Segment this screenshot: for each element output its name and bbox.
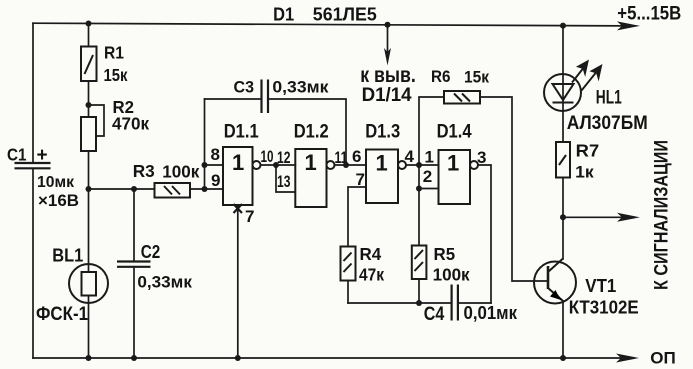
svg-text:0,33мк: 0,33мк bbox=[272, 78, 329, 97]
wire BL1 top lead bbox=[88, 189, 90, 272]
resistor R2 (trimmer) bbox=[81, 117, 96, 151]
svg-text:VT1: VT1 bbox=[585, 276, 616, 296]
node pin7 ground bbox=[235, 355, 241, 361]
svg-text:7: 7 bbox=[245, 207, 254, 226]
resistor R4 bbox=[341, 247, 356, 281]
wire R7 to collector bbox=[562, 178, 564, 260]
node BL1 ground bbox=[86, 355, 92, 361]
svg-text:470к: 470к bbox=[112, 114, 149, 134]
svg-text:D1.2: D1.2 bbox=[294, 122, 329, 143]
svg-text:12: 12 bbox=[277, 148, 291, 167]
svg-text:10: 10 bbox=[261, 147, 274, 166]
wire C2 top lead bbox=[133, 189, 135, 262]
svg-text:4: 4 bbox=[405, 147, 415, 166]
node D1.1 out bbox=[273, 162, 279, 168]
wire bottom rail bbox=[33, 357, 622, 359]
svg-text:9: 9 bbox=[211, 171, 220, 190]
wire D1.3 input 7 down to R4 bbox=[348, 187, 366, 247]
node D1.2 out bbox=[343, 162, 349, 168]
svg-text:100к: 100к bbox=[433, 265, 470, 285]
wire R1-R2 lead bbox=[88, 81, 90, 117]
wire emitter to bottom rail bbox=[562, 301, 564, 358]
wire R1 top lead bbox=[88, 24, 90, 47]
wire input column to C3 bbox=[204, 99, 206, 189]
node pin8 bbox=[202, 162, 208, 168]
node C2 tap bbox=[131, 186, 137, 192]
node R5/C4 bbox=[416, 300, 422, 306]
wire D1.4 output to C4 bbox=[478, 165, 491, 303]
svg-text:КТ3102Е: КТ3102Е bbox=[569, 298, 639, 318]
wire R5 bottom lead bbox=[418, 279, 420, 303]
wire left rail lower bbox=[32, 168, 34, 358]
svg-text:D1.1: D1.1 bbox=[224, 122, 259, 143]
svg-text:1: 1 bbox=[376, 151, 388, 176]
wire pin 8 bbox=[205, 164, 224, 166]
gate D1.4 bbox=[439, 150, 479, 204]
node top R1 bbox=[86, 21, 92, 27]
svg-text:ФСК-1: ФСК-1 bbox=[36, 304, 88, 325]
svg-text:HL1: HL1 bbox=[596, 88, 622, 109]
svg-text:C3: C3 bbox=[234, 79, 255, 97]
svg-text:R3: R3 bbox=[133, 161, 155, 181]
node pin9 bbox=[202, 186, 208, 192]
resistor R5 bbox=[412, 246, 427, 280]
capacitor C4 bbox=[452, 285, 458, 321]
svg-text:АЛ307БМ: АЛ307БМ bbox=[567, 112, 648, 134]
svg-text:D1.4: D1.4 bbox=[437, 122, 472, 143]
emitter arrowhead bbox=[550, 290, 563, 301]
wire jog to pin 13 bbox=[276, 165, 295, 192]
svg-text:1к: 1к bbox=[575, 163, 594, 182]
resistor R7 bbox=[556, 142, 570, 178]
wire R2 bottom lead bbox=[88, 151, 90, 189]
svg-text:1: 1 bbox=[232, 150, 244, 175]
node emitter ground bbox=[560, 355, 566, 361]
arrow to pin D1/14 bbox=[384, 25, 391, 66]
svg-text:C1: C1 bbox=[7, 145, 27, 165]
pin 7 mark of D1.1 bbox=[234, 204, 243, 213]
resistor R1 bbox=[81, 47, 97, 82]
svg-text:+: + bbox=[37, 145, 48, 166]
node D1.3 out bbox=[416, 162, 422, 168]
wire D1.4 input column down to R5 bbox=[418, 165, 420, 246]
capacitor C3 bbox=[262, 80, 269, 114]
wire pin 2 bbox=[419, 188, 439, 190]
svg-text:3: 3 bbox=[477, 148, 486, 167]
svg-text:R4: R4 bbox=[360, 244, 382, 264]
svg-text:10мк: 10мк bbox=[37, 174, 75, 191]
svg-text:D1.3: D1.3 bbox=[365, 122, 400, 143]
gate D1.2 bbox=[295, 149, 334, 207]
svg-text:1: 1 bbox=[425, 148, 434, 167]
node D1/14 tap bbox=[385, 22, 391, 28]
svg-text:BL1: BL1 bbox=[52, 245, 83, 266]
capacitor C2 bbox=[117, 262, 151, 267]
node collector branch bbox=[560, 214, 566, 220]
svg-text:15к: 15к bbox=[104, 65, 128, 85]
svg-text:R7: R7 bbox=[576, 141, 600, 161]
svg-text:R6: R6 bbox=[431, 68, 451, 86]
svg-text:ОП: ОП bbox=[650, 350, 676, 368]
wire D1.3 output bbox=[406, 164, 439, 166]
svg-text:47к: 47к bbox=[359, 265, 384, 285]
wire top supply rail bbox=[33, 23, 623, 26]
wire D1.2 output bbox=[335, 164, 367, 166]
photoresistor BL1 bbox=[69, 264, 108, 303]
arrow +5...15V supply bbox=[616, 21, 640, 362]
op-amp gate D1.1 bbox=[223, 147, 261, 205]
wire C4 row left bbox=[348, 302, 452, 304]
wire right rail from supply through HL1 bbox=[562, 26, 564, 142]
svg-text:D1/14: D1/14 bbox=[362, 84, 412, 106]
svg-text:561ЛЕ5: 561ЛЕ5 bbox=[313, 4, 377, 25]
wire pin 7 ground stub of D1.1 bbox=[237, 205, 239, 358]
svg-text:6: 6 bbox=[352, 147, 361, 166]
gate D1.3 bbox=[366, 150, 406, 204]
svg-text:1: 1 bbox=[305, 150, 317, 175]
svg-text:8: 8 bbox=[211, 145, 220, 164]
node pin2 bbox=[416, 186, 422, 192]
svg-text:R1: R1 bbox=[104, 43, 124, 63]
wire R3 to gate inputs bbox=[190, 188, 205, 190]
wire C4 row right bbox=[458, 302, 491, 304]
wire C3 right to D1.2 output bbox=[268, 99, 346, 165]
resistor R3 bbox=[155, 183, 191, 198]
LED emission arrows bbox=[572, 62, 601, 91]
svg-text:×16В: ×16В bbox=[38, 191, 79, 210]
wire node R2/R3/BL1 row bbox=[89, 188, 155, 190]
svg-text:C2: C2 bbox=[141, 242, 161, 262]
svg-text:0,33мк: 0,33мк bbox=[137, 273, 192, 292]
svg-text:1: 1 bbox=[447, 151, 459, 176]
transistor VT1 bbox=[534, 259, 576, 304]
wire C2 bottom lead bbox=[133, 267, 135, 358]
svg-text:15к: 15к bbox=[464, 67, 489, 86]
svg-text:13: 13 bbox=[277, 172, 291, 191]
wire D1.1 output bbox=[261, 164, 277, 166]
wire R4 bottom lead bbox=[347, 281, 349, 304]
wire pin 9 bbox=[205, 188, 224, 190]
svg-text:0,01мк: 0,01мк bbox=[464, 303, 518, 323]
node top right bbox=[560, 23, 566, 29]
svg-text:2: 2 bbox=[423, 167, 432, 186]
wire BL1 bottom lead bbox=[88, 296, 90, 359]
wire signal out branch bbox=[563, 216, 624, 218]
wire R6 right to VT1 base bbox=[480, 97, 548, 281]
svg-text:C4: C4 bbox=[424, 303, 445, 325]
LED HL1 bbox=[544, 74, 581, 111]
wire pin 12 bbox=[276, 164, 295, 166]
wire R6 left loop bbox=[419, 97, 444, 165]
svg-text:7: 7 bbox=[356, 170, 365, 189]
wire R2 wiper tap bbox=[89, 105, 105, 136]
svg-text:100к: 100к bbox=[162, 162, 199, 182]
resistor R6 bbox=[444, 91, 480, 104]
arrow OP bottom bbox=[616, 354, 639, 363]
wire C3 left bbox=[205, 98, 262, 100]
svg-text:+5...15В: +5...15В bbox=[617, 3, 681, 25]
capacitor C1 bbox=[15, 163, 51, 168]
arrow to alarm bbox=[617, 213, 640, 222]
node C2 ground bbox=[131, 355, 137, 361]
node R2/R3/BL1 bbox=[86, 186, 92, 192]
svg-text:R5: R5 bbox=[434, 244, 456, 264]
svg-text:К СИГНАЛИЗАЦИИ: К СИГНАЛИЗАЦИИ bbox=[651, 140, 672, 290]
node R1/R2 bbox=[86, 102, 92, 108]
wire left rail upper bbox=[32, 23, 34, 163]
svg-text:D1: D1 bbox=[273, 4, 294, 25]
